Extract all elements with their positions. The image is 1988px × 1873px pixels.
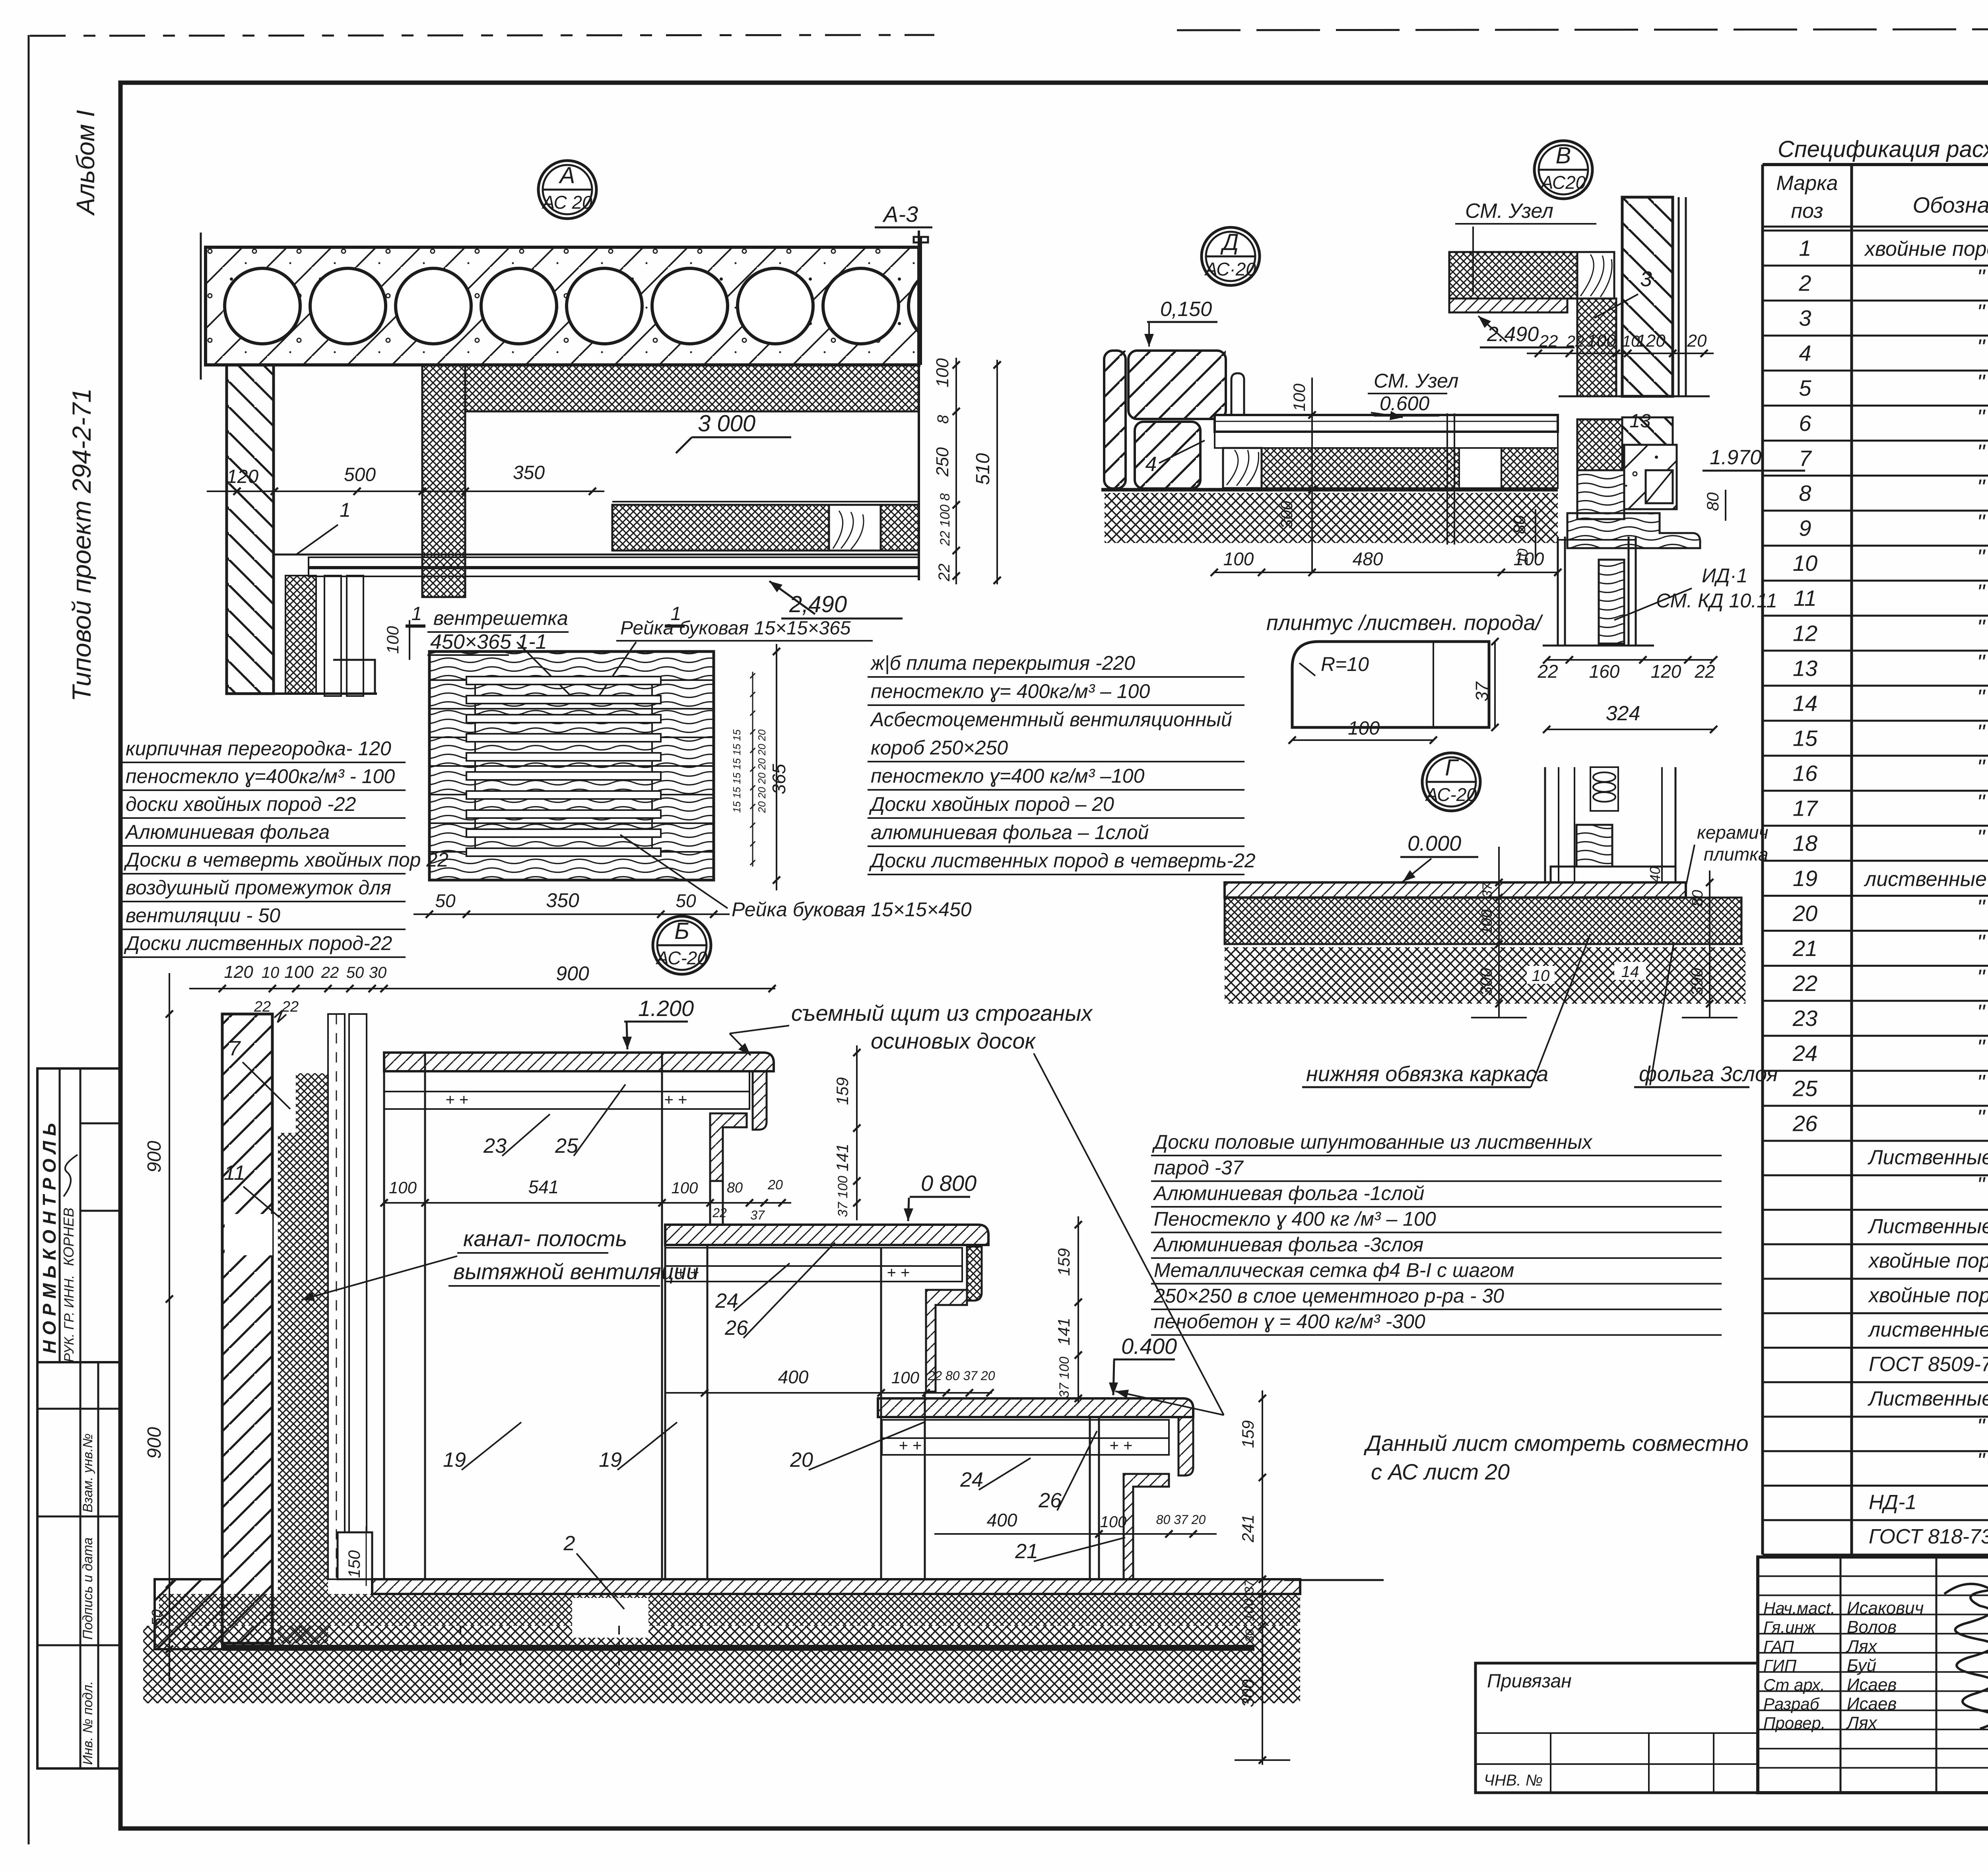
svg-text:вытяжной вентиляции: вытяжной вентиляции — [453, 1259, 699, 1284]
svg-text:": " — [1977, 475, 1986, 500]
svg-text:": " — [1977, 790, 1986, 815]
svg-text:АС-20: АС-20 — [1425, 784, 1477, 805]
svg-text:14: 14 — [1793, 690, 1817, 715]
svg-text:11: 11 — [1794, 586, 1817, 611]
svg-text:АС20: АС20 — [1540, 172, 1586, 193]
svg-text:24: 24 — [960, 1468, 983, 1491]
svg-text:8: 8 — [1799, 481, 1811, 506]
svg-text:ЧНВ. №: ЧНВ. № — [1484, 1772, 1543, 1789]
svg-text:120: 120 — [1651, 661, 1681, 682]
svg-text:1.200: 1.200 — [638, 996, 694, 1021]
svg-text:Алюминиевая фольга: Алюминиевая фольга — [124, 821, 330, 843]
svg-text:19: 19 — [1793, 866, 1817, 891]
svg-text:": " — [1977, 1105, 1986, 1130]
svg-text:0.400: 0.400 — [1121, 1334, 1177, 1359]
svg-text:1: 1 — [1799, 235, 1811, 260]
svg-text:7: 7 — [1799, 446, 1812, 471]
svg-text:22: 22 — [1539, 332, 1558, 350]
svg-text:150: 150 — [345, 1550, 363, 1578]
svg-text:Пеностекло ɣ 400 кг /м³: Пеностекло ɣ 400 кг /м³ – 100 — [1154, 1208, 1436, 1230]
svg-text:100: 100 — [1242, 1599, 1257, 1621]
svg-text:": " — [1977, 1070, 1986, 1095]
svg-text:плитка: плитка — [1704, 844, 1768, 865]
svg-text:250: 250 — [933, 447, 952, 477]
svg-text:100: 100 — [389, 1178, 417, 1197]
svg-text:ГОСТ 8509-72: ГОСТ 8509-72 — [1869, 1353, 1988, 1376]
svg-text:Нач.мact.: Нач.мact. — [1763, 1599, 1835, 1617]
svg-text:159: 159 — [1054, 1248, 1073, 1276]
svg-text:": " — [1977, 265, 1986, 290]
svg-text:Взам. унв.№: Взам. унв.№ — [80, 1433, 95, 1512]
svg-text:300: 300 — [1477, 968, 1495, 996]
svg-text:": " — [1977, 755, 1986, 780]
svg-text:100: 100 — [284, 962, 314, 982]
svg-text:": " — [1977, 545, 1986, 570]
svg-text:2,490: 2,490 — [789, 591, 847, 617]
svg-text:": " — [1977, 1000, 1986, 1025]
svg-text:20 20 20 20 20 20: 20 20 20 20 20 20 — [756, 729, 768, 813]
svg-text:300: 300 — [1239, 1679, 1257, 1707]
svg-text:40: 40 — [1647, 867, 1663, 882]
svg-text:100: 100 — [1290, 383, 1309, 411]
svg-text:80: 80 — [1689, 890, 1706, 907]
svg-text:+ +: + + — [1109, 1437, 1132, 1454]
svg-text:14: 14 — [1621, 963, 1639, 981]
svg-text:24: 24 — [1792, 1041, 1817, 1066]
svg-text:Обозначение: Обозначение — [1912, 192, 1988, 217]
svg-text:37 100: 37 100 — [835, 1176, 850, 1217]
svg-text:Доски лиственных пород-22: Доски лиственных пород-22 — [124, 932, 392, 954]
svg-text:10: 10 — [1793, 551, 1817, 576]
svg-text:300: 300 — [1277, 500, 1296, 529]
svg-text:80: 80 — [727, 1179, 743, 1196]
svg-text:350: 350 — [546, 889, 579, 911]
svg-text:+ +: + + — [664, 1091, 687, 1109]
svg-text:": " — [1977, 580, 1986, 605]
svg-text:Рейка буковая 15×15×450: Рейка буковая 15×15×450 — [732, 898, 972, 921]
svg-text:100: 100 — [1348, 718, 1380, 739]
svg-text:пеностекло ɣ= 400кг/м³: пеностекло ɣ= 400кг/м³ – 100 — [871, 680, 1150, 702]
svg-text:21: 21 — [1792, 936, 1817, 961]
svg-text:10: 10 — [1514, 549, 1531, 564]
svg-text:1: 1 — [412, 603, 422, 624]
svg-text:10: 10 — [1532, 967, 1550, 985]
svg-text:10: 10 — [262, 964, 280, 981]
svg-text:Буй: Буй — [1847, 1656, 1876, 1675]
svg-text:50: 50 — [435, 890, 456, 911]
svg-text:37: 37 — [1472, 681, 1492, 701]
svg-text:+ +: + + — [899, 1437, 922, 1454]
svg-text:24: 24 — [715, 1289, 738, 1313]
svg-text:Инв. № подл.: Инв. № подл. — [80, 1681, 95, 1765]
svg-text:400: 400 — [987, 1510, 1017, 1530]
svg-text:СМ. Узел: СМ. Узел — [1374, 370, 1458, 392]
svg-text:ГАП: ГАП — [1763, 1637, 1794, 1656]
svg-text:22: 22 — [1566, 333, 1584, 350]
svg-text:22: 22 — [1537, 661, 1558, 682]
svg-text:": " — [1977, 440, 1986, 465]
svg-text:вентиляции -: вентиляции - 50 — [126, 904, 280, 927]
svg-text:900: 900 — [556, 962, 589, 985]
svg-text:8: 8 — [934, 415, 952, 424]
svg-text:11: 11 — [224, 1161, 245, 1185]
svg-text:2.490: 2.490 — [1487, 323, 1539, 346]
svg-text:500: 500 — [344, 464, 376, 485]
svg-text:2: 2 — [563, 1532, 575, 1555]
svg-text:30: 30 — [369, 964, 387, 981]
svg-text:541: 541 — [528, 1177, 559, 1197]
svg-text:141: 141 — [833, 1144, 852, 1171]
svg-text:21: 21 — [1015, 1540, 1038, 1563]
svg-text:19: 19 — [599, 1448, 622, 1472]
svg-text:37 100: 37 100 — [1057, 1357, 1072, 1398]
svg-text:А-3: А-3 — [882, 202, 918, 227]
svg-text:Б: Б — [674, 918, 689, 944]
svg-text:РУК. ГР. ИНН.: РУК. ГР. ИНН. — [62, 1275, 77, 1362]
svg-text:9: 9 — [1799, 516, 1811, 541]
svg-text:390: 390 — [1687, 968, 1706, 996]
svg-text:Д: Д — [1220, 229, 1239, 255]
svg-text:": " — [1977, 335, 1986, 360]
svg-text:100: 100 — [383, 626, 402, 654]
svg-text:Доски половые шпунтованные из: Доски половые шпунтованные из лиственных — [1152, 1131, 1593, 1153]
svg-text:АС-20: АС-20 — [655, 948, 707, 968]
svg-text:22: 22 — [712, 1206, 727, 1220]
svg-text:СМ. Узел: СМ. Узел — [1465, 200, 1553, 223]
svg-text:пеностекло ɣ=400 кг/м³: пеностекло ɣ=400 кг/м³ –100 — [871, 765, 1145, 787]
svg-text:0,150: 0,150 — [1160, 298, 1212, 321]
svg-text:керамич: керамич — [1697, 822, 1768, 843]
svg-text:Исаев: Исаев — [1847, 1694, 1897, 1714]
svg-text:5: 5 — [1799, 376, 1811, 401]
svg-text:15 15 15 15 15 15: 15 15 15 15 15 15 — [731, 729, 743, 813]
svg-text:Лиственные породы: Лиственные породы — [1868, 1387, 1988, 1410]
svg-text:3 000: 3 000 — [698, 411, 755, 436]
svg-text:плинтус /листвен. порода/: плинтус /листвен. порода/ — [1266, 611, 1543, 635]
svg-text:парод: парод -37 — [1154, 1157, 1244, 1179]
svg-text:Асбестоцементный вентиляционн: Асбестоцементный вентиляционный — [870, 708, 1232, 731]
svg-text:13: 13 — [1793, 655, 1817, 681]
svg-text:159: 159 — [1239, 1420, 1257, 1448]
svg-text:26: 26 — [1792, 1111, 1818, 1136]
svg-text:Металлическая сетка ф4 В-I с: Металлическая сетка ф4 В-I с шагом — [1154, 1259, 1514, 1282]
svg-text:250×250 в слое цементного р: 250×250 в слое цементного р-ра - 30 — [1153, 1285, 1504, 1307]
svg-text:37: 37 — [750, 1208, 765, 1222]
svg-text:Доски в четверть хвойных пор 2: Доски в четверть хвойных пор 22 — [124, 849, 448, 871]
svg-text:КОРНЕВ: КОРНЕВ — [60, 1208, 77, 1266]
svg-text:Лях: Лях — [1846, 1636, 1878, 1656]
svg-text:": " — [1977, 895, 1986, 920]
svg-text:480: 480 — [1353, 549, 1383, 569]
svg-text:": " — [1977, 825, 1986, 850]
svg-text:Рейка буковая 15×15×365: Рейка буковая 15×15×365 — [620, 618, 851, 639]
svg-text:канал- полость: канал- полость — [463, 1226, 627, 1251]
svg-text:": " — [1977, 684, 1986, 710]
svg-text:хвойные породы: хвойные породы — [1868, 1249, 1988, 1272]
svg-text:": " — [1977, 370, 1986, 395]
svg-text:": " — [1977, 615, 1986, 640]
svg-text:2: 2 — [1798, 270, 1811, 295]
svg-text:Г: Г — [1445, 755, 1459, 781]
svg-text:Гя.инж: Гя.инж — [1763, 1618, 1816, 1636]
svg-text:алюминиевая фольга –: алюминиевая фольга – 1слой — [871, 821, 1149, 843]
svg-text:22: 22 — [1694, 661, 1715, 682]
svg-text:Данный лист смотреть совместно: Данный лист смотреть совместно — [1363, 1431, 1749, 1456]
svg-text:120: 120 — [1636, 331, 1666, 351]
svg-text:160: 160 — [1589, 661, 1620, 682]
svg-text:Разраб: Разраб — [1763, 1695, 1820, 1713]
svg-text:3: 3 — [1799, 306, 1811, 331]
svg-text:+ +: + + — [887, 1264, 910, 1282]
svg-text:СМ. КД 10.11: СМ. КД 10.11 — [1656, 589, 1777, 612]
svg-text:": " — [1977, 405, 1986, 430]
svg-text:0.600: 0.600 — [1380, 392, 1429, 415]
svg-text:3: 3 — [1640, 267, 1652, 291]
svg-text:Альбом I: Альбом I — [71, 110, 100, 216]
svg-text:15: 15 — [1793, 725, 1818, 750]
svg-text:18: 18 — [1793, 831, 1817, 856]
svg-text:": " — [1977, 650, 1986, 675]
svg-text:100: 100 — [891, 1368, 920, 1387]
svg-text:Лиственные породы: Лиственные породы — [1868, 1146, 1988, 1169]
svg-text:510: 510 — [973, 453, 994, 485]
svg-text:": " — [1977, 720, 1986, 745]
svg-text:осиновых досок: осиновых досок — [871, 1028, 1036, 1053]
svg-text:4: 4 — [1145, 453, 1157, 476]
svg-text:30: 30 — [1243, 1629, 1256, 1642]
svg-text:+ +: + + — [445, 1091, 468, 1109]
svg-text:А: А — [559, 163, 575, 188]
svg-text:Марка: Марка — [1776, 172, 1838, 195]
svg-text:поз: поз — [1791, 200, 1823, 223]
svg-text:0.000: 0.000 — [1408, 832, 1461, 855]
svg-text:100: 100 — [1223, 549, 1254, 569]
svg-text:НД-1: НД-1 — [1869, 1491, 1916, 1514]
svg-text:короб 250×250: короб 250×250 — [871, 737, 1008, 759]
svg-text:Н О Р М Ь К О Н Т Р О Л Ь: Н О Р М Ь К О Н Т Р О Л Ь — [39, 1123, 60, 1353]
svg-text:съемный щит из строганых: съемный щит из строганых — [791, 1000, 1093, 1026]
svg-text:Спецификация расхода материа: Спецификация расхода материалов на камер… — [1778, 136, 1988, 162]
svg-text:13: 13 — [1629, 411, 1651, 432]
svg-text:Исаев: Исаев — [1847, 1675, 1897, 1695]
svg-text:365: 365 — [769, 764, 789, 794]
svg-text:80: 80 — [1703, 492, 1722, 511]
svg-text:80: 80 — [1510, 515, 1529, 534]
svg-text:241: 241 — [1239, 1514, 1257, 1543]
svg-text:Алюминиевая фольга: Алюминиевая фольга -3слоя — [1153, 1233, 1423, 1256]
svg-text:25: 25 — [1792, 1076, 1818, 1101]
svg-text:159: 159 — [833, 1077, 852, 1105]
svg-text:100: 100 — [1100, 1513, 1127, 1531]
svg-text:АС·20: АС·20 — [1204, 259, 1256, 279]
svg-text:50: 50 — [676, 890, 696, 911]
svg-text:воздушный промежуток для: воздушный промежуток для — [126, 876, 391, 899]
svg-text:100: 100 — [933, 358, 952, 388]
svg-text:450×365 1-1: 450×365 1-1 — [430, 630, 547, 653]
svg-text:22 80 37 20: 22 80 37 20 — [927, 1369, 995, 1383]
svg-text:900: 900 — [144, 1141, 165, 1173]
svg-text:100: 100 — [672, 1179, 698, 1197]
svg-text:фольга 3слоя: фольга 3слоя — [1639, 1062, 1778, 1086]
svg-text:пеностекло ɣ=400кг/м³ - 100: пеностекло ɣ=400кг/м³ - 100 — [126, 765, 395, 787]
svg-text:120: 120 — [224, 962, 253, 982]
svg-text:324: 324 — [1606, 702, 1640, 725]
svg-text:вентрешетка: вентрешетка — [433, 607, 568, 629]
svg-text:В: В — [1556, 143, 1571, 169]
svg-text:1.970: 1.970 — [1710, 446, 1761, 469]
svg-text:с АС лист 20: с АС лист 20 — [1371, 1459, 1510, 1484]
svg-text:": " — [1977, 510, 1986, 535]
svg-text:19: 19 — [443, 1448, 466, 1472]
svg-text:100: 100 — [1479, 909, 1495, 935]
svg-text:120: 120 — [227, 466, 258, 487]
svg-text:": " — [1977, 300, 1986, 325]
svg-text:": " — [1977, 930, 1986, 955]
svg-text:6: 6 — [1799, 411, 1811, 436]
svg-text:Алюминиевая фольга: Алюминиевая фольга -1слой — [1153, 1182, 1424, 1204]
svg-text:20: 20 — [1792, 901, 1817, 926]
svg-text:": " — [1977, 965, 1986, 990]
svg-text:Лиственные породы: Лиственные породы — [1868, 1215, 1988, 1238]
svg-text:20: 20 — [1687, 331, 1707, 351]
svg-text:23: 23 — [1792, 1006, 1817, 1031]
svg-text:7: 7 — [229, 1037, 241, 1060]
svg-text:лиственные породы: лиственные породы — [1864, 868, 1988, 891]
svg-text:50: 50 — [346, 964, 364, 981]
svg-text:хвойные породы: хвойные породы — [1868, 1284, 1988, 1307]
svg-text:Ст арх.: Ст арх. — [1763, 1675, 1825, 1694]
svg-text:Доски лиственных пород в четве: Доски лиственных пород в четверть-22 — [869, 849, 1256, 872]
svg-text:ИД·1: ИД·1 — [1702, 564, 1747, 587]
svg-text:Волов: Волов — [1847, 1617, 1897, 1637]
svg-text:100: 100 — [1587, 331, 1616, 351]
svg-text:17: 17 — [1793, 796, 1818, 821]
svg-text:350: 350 — [513, 462, 545, 483]
svg-text:22 100 8: 22 100 8 — [938, 493, 953, 546]
svg-text:ГОСТ 818-73: ГОСТ 818-73 — [1869, 1525, 1988, 1548]
svg-text:1: 1 — [340, 499, 351, 521]
svg-text:22: 22 — [1792, 971, 1817, 996]
svg-text:Провер.: Провер. — [1763, 1714, 1826, 1732]
svg-text:Доски хвойных пород: Доски хвойных пород – 20 — [869, 793, 1114, 815]
svg-text:20: 20 — [767, 1177, 783, 1192]
svg-text:141: 141 — [1054, 1318, 1073, 1346]
svg-text:ГИП: ГИП — [1763, 1656, 1797, 1675]
svg-text:пенобетон ɣ = 400 кг/м³: пенобетон ɣ = 400 кг/м³ -300 — [1154, 1311, 1425, 1333]
svg-text:80 37 20: 80 37 20 — [1156, 1512, 1206, 1527]
svg-text:R=10: R=10 — [1321, 653, 1369, 675]
svg-text:37: 37 — [1480, 882, 1495, 898]
svg-text:Подпись и дата: Подпись и дата — [80, 1538, 95, 1640]
svg-text:Исакович: Исакович — [1847, 1598, 1924, 1618]
svg-text:22: 22 — [936, 564, 953, 582]
svg-text:Привязан: Привязан — [1487, 1671, 1572, 1692]
svg-text:кирпичная перегородка- 120: кирпичная перегородка- 120 — [126, 737, 391, 760]
svg-text:ж|б плита перекрытия: ж|б плита перекрытия -220 — [870, 652, 1135, 675]
svg-text:0 800: 0 800 — [921, 1171, 977, 1196]
svg-text:нижняя обвязка каркаса: нижняя обвязка каркаса — [1306, 1062, 1548, 1086]
svg-text:4: 4 — [1799, 341, 1811, 366]
svg-text:20: 20 — [790, 1448, 813, 1472]
svg-text:22: 22 — [282, 999, 299, 1015]
svg-text:АС 20: АС 20 — [541, 192, 592, 213]
svg-text:хвойные породы: хвойные породы — [1864, 237, 1988, 260]
svg-text:": " — [1977, 1035, 1986, 1060]
svg-text:лиственные породы: лиственные породы — [1868, 1318, 1988, 1342]
svg-text:900: 900 — [144, 1427, 165, 1459]
svg-text:400: 400 — [778, 1367, 809, 1387]
svg-text:12: 12 — [1793, 620, 1817, 646]
svg-text:16: 16 — [1793, 761, 1818, 786]
svg-text:доски хвойных пород -22: доски хвойных пород -22 — [126, 793, 356, 815]
svg-text:Лях: Лях — [1846, 1713, 1878, 1733]
svg-text:22: 22 — [321, 964, 339, 981]
svg-text:37: 37 — [1242, 1579, 1256, 1594]
svg-text:Типовой проект 294-2-71: Типовой проект 294-2-71 — [67, 388, 96, 702]
svg-text:23: 23 — [483, 1134, 507, 1158]
